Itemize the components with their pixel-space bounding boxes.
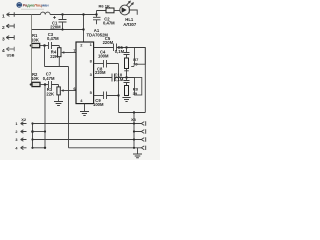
svg-text:22K: 22K — [50, 54, 58, 59]
svg-text:1: 1 — [2, 14, 5, 20]
R4 wiper arrow to IC pin 7 — [64, 52, 76, 54]
capacitor C7 — [49, 81, 59, 88]
wire input feed horizontal — [45, 66, 69, 68]
wire pot R4 bottom — [58, 57, 60, 67]
ground under R8 — [122, 98, 130, 102]
wire pin8 down — [118, 64, 120, 113]
svg-text:0,47M: 0,47M — [103, 20, 115, 25]
wire R1 to input node — [40, 45, 48, 47]
wire bus 1 — [33, 123, 135, 125]
node junction midrail/pin2 — [82, 28, 84, 30]
speaker box BA1 — [135, 48, 146, 65]
watermark logo — [16, 2, 49, 10]
wire grey bias vertical — [31, 15, 33, 85]
resistor R6 — [106, 8, 114, 13]
label R2 10K — [31, 72, 39, 81]
wire R2 right — [40, 84, 48, 86]
label R8 39 — [133, 86, 139, 95]
connector X1 pin numbers — [2, 14, 5, 55]
svg-text:4: 4 — [2, 48, 5, 54]
wire pot R4 top — [58, 46, 60, 48]
label R7 39 — [133, 57, 139, 66]
label R3 22K — [46, 87, 54, 96]
svg-text:0,47M: 0,47M — [43, 76, 55, 81]
capacitor C9 — [104, 92, 119, 100]
capacitor C2 — [93, 15, 101, 25]
X1 pin 2 contact arrow — [6, 24, 14, 28]
node input junction — [43, 44, 46, 47]
wire IC pin6 out — [94, 95, 104, 97]
node junction C2/rail — [95, 13, 97, 15]
svg-text:100M: 100M — [93, 102, 104, 107]
svg-text:220M: 220M — [95, 70, 106, 75]
label C8 220M — [95, 67, 106, 75]
label R4 22K — [50, 50, 58, 59]
node junction C1 bottom — [61, 28, 63, 30]
label C2 0.47M — [103, 16, 115, 25]
svg-text:0,1M: 0,1M — [114, 77, 124, 82]
resistor R2 — [32, 82, 40, 86]
X2 pin 4 — [15, 146, 26, 150]
svg-text:R6 1K: R6 1K — [99, 4, 110, 9]
resistor zobel upper R7 — [125, 58, 129, 69]
node junction R2/bus — [44, 83, 47, 86]
node stub left of R1 — [30, 45, 31, 47]
wire IC pin8 out — [94, 63, 104, 65]
node X2 junctions — [31, 122, 33, 124]
X1 pin 3 contact arrow — [6, 35, 14, 39]
svg-text:2: 2 — [2, 25, 5, 31]
label R1 10K — [31, 33, 39, 42]
svg-text:0,47M: 0,47M — [47, 36, 59, 41]
node junction X3 column top — [133, 111, 135, 113]
svg-text:220M: 220M — [50, 24, 61, 29]
node junction zobel top — [125, 46, 127, 48]
wire mid rail — [32, 29, 84, 31]
wire bus 3 — [33, 139, 135, 141]
speaker box BA2 — [135, 78, 142, 96]
X3 pin 2 — [133, 129, 146, 133]
svg-text:0,1M: 0,1M — [115, 49, 125, 54]
svg-text:22K: 22K — [46, 92, 54, 97]
wire vertical to IC pin2 — [83, 15, 85, 43]
speaker BA1 terminal tick — [131, 66, 134, 68]
svg-text:10K: 10K — [31, 37, 39, 42]
capacitor C8 — [112, 74, 135, 82]
wire output bottom link — [119, 48, 146, 113]
svg-text:РадиоЛоцман: РадиоЛоцман — [23, 3, 50, 8]
label C6 0.1M — [115, 45, 125, 54]
ground under X3 — [133, 154, 142, 158]
resistor R8 — [125, 86, 129, 96]
wire IC pin1 out — [94, 47, 114, 49]
capacitor C5 — [114, 44, 146, 52]
svg-text:USB: USB — [7, 54, 15, 58]
wire input feed vertical — [68, 67, 70, 148]
svg-text:1: 1 — [15, 122, 17, 126]
wire pot R3 top — [58, 85, 60, 87]
svg-text:2: 2 — [15, 130, 17, 134]
op-amp IC A1 box — [76, 42, 94, 104]
LED HL1 — [114, 1, 133, 15]
wire bus 2 — [33, 131, 46, 133]
wire junction down to bus — [44, 85, 46, 148]
wire zobel upper down — [124, 69, 129, 78]
wire bus 5 signal — [69, 147, 135, 149]
wire pot R3 bottom — [58, 95, 60, 102]
X2 pin 3 — [15, 138, 26, 142]
resistor R1 — [32, 43, 40, 47]
wire bus 4 short — [33, 147, 46, 149]
svg-text:220M: 220M — [103, 40, 114, 45]
capacitor C10 — [124, 78, 130, 86]
capacitor C3 — [49, 42, 60, 49]
node junction rail/pin2 — [82, 13, 84, 15]
node left of R2 — [30, 84, 32, 86]
node bus4 end — [44, 147, 46, 149]
capacitor C6 — [124, 48, 130, 58]
svg-text:100M: 100M — [98, 53, 109, 58]
ground under IC — [80, 112, 89, 116]
svg-text:3: 3 — [15, 138, 17, 142]
wire X3 column — [133, 113, 135, 148]
node junction C1/top rail — [61, 13, 63, 15]
IC ground pin — [84, 104, 86, 112]
X3 pin 3 — [133, 137, 146, 141]
label C10 0.1M — [114, 73, 124, 83]
capacitor C4 — [104, 60, 119, 68]
svg-text:X2: X2 — [21, 117, 27, 122]
X1 pin 1 contact arrow — [7, 12, 15, 16]
ground under R3 — [54, 102, 63, 106]
label C7 0.47M — [43, 71, 55, 80]
label C1 220M — [50, 20, 61, 29]
wire X2 common column — [32, 124, 34, 148]
inductor L1 — [41, 12, 51, 14]
wire X3 ground drop — [137, 148, 139, 154]
svg-text:10K: 10K — [31, 76, 39, 81]
capacitor C1 — [53, 15, 66, 30]
svg-text:3: 3 — [2, 37, 5, 43]
node junction pin6/pin8 drop — [117, 94, 119, 96]
X2 pin 2 — [15, 130, 26, 134]
label C5 220M — [103, 36, 114, 45]
R3 wiper arrow to IC pin 6 — [63, 90, 76, 92]
svg-text:АЛ307: АЛ307 — [123, 22, 137, 27]
potentiometer R4 — [58, 48, 61, 57]
potentiometer R3 — [57, 87, 60, 95]
X3 pin 1 — [133, 121, 146, 125]
node junction zobel/pin3 wire — [125, 76, 127, 78]
label C9 100M — [93, 98, 104, 107]
X1 pin 4 contact arrow — [6, 47, 14, 51]
wire IC pin3 out — [94, 77, 112, 79]
wire +5V top rail — [14, 11, 106, 15]
X2 pin 1 — [15, 122, 26, 126]
wire input node down — [44, 46, 46, 67]
svg-text:X3: X3 — [131, 117, 137, 122]
label C4 100M — [98, 49, 109, 58]
wire LED cathode down right side — [130, 10, 138, 15]
label C3 0.47M — [47, 32, 59, 41]
X3 pin 4 — [133, 146, 146, 150]
